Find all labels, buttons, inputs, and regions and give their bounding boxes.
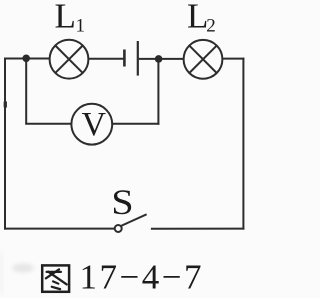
- wire battery to L2: [139, 58, 184, 60]
- svg-text:17−4−7: 17−4−7: [80, 258, 204, 297]
- svg-text:S: S: [111, 183, 133, 223]
- switch blade: [121, 214, 147, 226]
- node junction dot right: [155, 55, 163, 63]
- lamp L1: [50, 40, 89, 79]
- svg-text:L: L: [187, 0, 208, 36]
- node junction dot left: [22, 55, 30, 63]
- wire L2 to top-right corner: [222, 58, 244, 60]
- wire left side: [4, 58, 6, 230]
- wire bottom-right to switch: [151, 228, 245, 230]
- scan streak bottom-left edge: [0, 252, 3, 294]
- voltmeter U1: [71, 104, 112, 145]
- label L2: [187, 0, 216, 37]
- wire right side: [242, 58, 244, 230]
- wire voltmeter branch horizontal left: [25, 123, 71, 125]
- wire junction down to voltmeter branch: [25, 58, 27, 123]
- label L1: [55, 0, 86, 37]
- wire bottom-left to switch: [4, 228, 114, 230]
- wire voltmeter branch up to node: [157, 59, 159, 125]
- wire L1 to battery: [88, 58, 123, 60]
- svg-text:L: L: [55, 0, 76, 36]
- svg-text:V: V: [82, 106, 107, 143]
- scan smudge left border: [4, 101, 7, 108]
- lamp L2: [184, 40, 223, 79]
- battery cell B: [124, 41, 137, 76]
- svg-text:1: 1: [76, 16, 86, 37]
- svg-text:2: 2: [206, 16, 216, 37]
- caption character 图: [42, 265, 69, 291]
- switch S: [115, 214, 147, 232]
- scan smudge left of caption: [12, 264, 34, 273]
- wire top-left: [5, 58, 50, 60]
- wire voltmeter to right branch corner: [112, 123, 159, 125]
